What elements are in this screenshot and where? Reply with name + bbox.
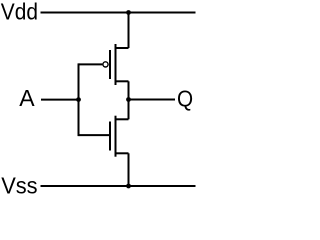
- svg-text:A: A: [19, 85, 35, 111]
- svg-text:Q: Q: [177, 85, 193, 111]
- svg-text:Vdd: Vdd: [1, 0, 38, 25]
- svg-text:Vss: Vss: [1, 173, 37, 199]
